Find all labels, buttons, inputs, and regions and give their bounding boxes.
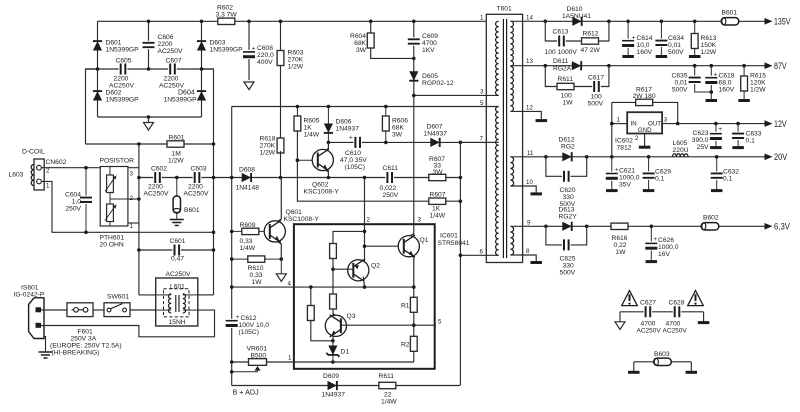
label C605 2200 AC250V (109, 58, 134, 90)
label D611 RG2A (553, 58, 572, 73)
label R602 3,3 7W (216, 5, 238, 19)
wire T601 pin10 to ground (510, 186, 542, 194)
svg-text:C607: C607 (166, 58, 182, 65)
svg-text:0,33: 0,33 (240, 238, 253, 245)
wire pin1 net y=362 (232, 361, 414, 363)
svg-text:Q602: Q602 (312, 182, 329, 189)
resistor R602 (218, 18, 235, 24)
diode D608 (242, 173, 251, 182)
label B601 (722, 10, 738, 17)
wire bridge left column (97, 21, 99, 117)
svg-text:250V: 250V (65, 206, 81, 213)
diode D604 (197, 91, 206, 100)
wire 12V rail (662, 123, 765, 125)
wire bridge bottom rail y=117 (98, 116, 202, 118)
svg-text:IC601: IC601 (440, 233, 458, 240)
svg-text:C610: C610 (345, 150, 361, 157)
svg-text:(HI-BREAKING): (HI-BREAKING) (52, 350, 100, 357)
capacitor C611 (385, 171, 394, 184)
svg-text:RGP02-12: RGP02-12 (422, 80, 454, 87)
wire Q1 base (365, 245, 404, 247)
connector CN602 (34, 159, 44, 190)
svg-text:1: 1 (288, 355, 292, 362)
svg-text:100 1000V: 100 1000V (545, 49, 578, 56)
svg-text:C611: C611 (383, 165, 399, 172)
svg-text:10: 10 (526, 179, 533, 186)
svg-text:R605: R605 (304, 118, 320, 125)
junction pin1 rail left (230, 360, 234, 364)
junction R607 1K right (459, 199, 463, 203)
junction D603 top (200, 20, 204, 24)
svg-text:POSISTOR: POSISTOR (100, 158, 135, 165)
svg-text:220U: 220U (673, 147, 689, 154)
svg-text:D602: D602 (106, 90, 122, 97)
diode D613 (562, 222, 571, 231)
label C629 0,1 (655, 169, 671, 183)
label Q3 (347, 313, 356, 320)
label L603 (9, 172, 24, 179)
svg-text:1: 1 (617, 117, 621, 124)
transistor Q3 (325, 314, 346, 341)
label D607 1N4937 (424, 124, 448, 138)
junction C634 top (660, 20, 664, 24)
wire T601 pin12 to ground (510, 111, 547, 120)
svg-text:0,1: 0,1 (655, 176, 665, 183)
svg-text:+: + (632, 35, 636, 42)
svg-text:0,1: 0,1 (746, 138, 756, 145)
svg-text:C627: C627 (640, 300, 656, 307)
capacitor C604 (79, 168, 93, 233)
bead B601 (721, 18, 739, 25)
label VR601 B500 (247, 346, 268, 360)
label R604 68K 3W (350, 33, 367, 54)
svg-text:F601: F601 (78, 329, 94, 336)
pin label T601 3 (480, 89, 484, 96)
diode D611 (572, 61, 581, 70)
capacitor C606 (142, 21, 156, 69)
label D609 1N4937 (322, 373, 346, 399)
svg-text:1N5399GP: 1N5399GP (106, 47, 140, 54)
svg-text:7812: 7812 (617, 145, 632, 152)
svg-text:1/4W: 1/4W (304, 132, 320, 139)
label C606 2200 AC250V (158, 34, 183, 55)
junction VR601 wiper (230, 370, 234, 374)
wire C620 loop (546, 157, 587, 177)
svg-text:D604: D604 (178, 90, 195, 97)
capacitor C603 (193, 171, 202, 184)
svg-text:160V: 160V (637, 49, 653, 56)
wire T601 pin8 to ground (510, 255, 542, 263)
label + C621 1000,0 35V (615, 167, 640, 189)
T601 core (503, 19, 506, 258)
wire plug neutral under L601 (41, 310, 215, 337)
svg-text:B + ADJ: B + ADJ (233, 388, 260, 397)
resistor R615 (738, 66, 750, 101)
diode D605 (409, 71, 418, 80)
svg-text:1N5399GP: 1N5399GP (106, 97, 140, 104)
wire fuse to switch (93, 309, 104, 311)
svg-text:AC250V: AC250V (159, 83, 184, 90)
svg-text:AC250V: AC250V (158, 48, 183, 55)
svg-text:C606: C606 (158, 34, 174, 41)
capacitor C614 electrolytic (621, 21, 635, 56)
svg-text:1: 1 (480, 15, 484, 22)
wire IC602 pin1 (612, 123, 627, 125)
junction C635 top (693, 64, 697, 68)
junction R1 top (412, 285, 416, 289)
capacitor C620 (562, 170, 571, 183)
resistor R617 (636, 99, 653, 105)
svg-text:C625: C625 (560, 256, 576, 263)
svg-text:R606: R606 (392, 118, 408, 125)
svg-text:1000,0: 1000,0 (658, 244, 679, 251)
wire B+ADJ bottom (232, 385, 460, 387)
svg-text:3,3 7W: 3,3 7W (216, 12, 238, 19)
label T601 (497, 6, 513, 13)
capacitor C613 (557, 35, 566, 48)
junction D607 cathode (459, 141, 463, 145)
svg-text:C621: C621 (619, 168, 635, 175)
svg-text:3: 3 (130, 171, 134, 178)
svg-text:16V: 16V (658, 251, 670, 258)
svg-text:D605: D605 (422, 73, 438, 80)
label C634 0,01 500V (668, 35, 684, 56)
capacitor C633 (731, 124, 745, 148)
svg-text:5: 5 (438, 319, 442, 326)
transistor Q1 (398, 234, 419, 288)
junction C608 top (247, 20, 251, 24)
svg-text:C612: C612 (241, 315, 257, 322)
svg-text:1N4937: 1N4937 (424, 131, 448, 138)
inductor L605 (673, 154, 689, 157)
svg-text:1: 1 (46, 183, 50, 190)
junction Q3 emitter node (331, 339, 335, 343)
wire 6,3V rail (510, 225, 765, 227)
wire pin2 rail (364, 178, 366, 262)
svg-text:8: 8 (526, 248, 530, 255)
label R609 0,33 1/4W (240, 222, 256, 252)
svg-text:500V: 500V (560, 270, 576, 277)
wire bridge top rail y=21.3 (98, 20, 487, 22)
junction R606 bottom (384, 141, 388, 145)
diode D610 (572, 17, 581, 26)
junction PTH pin2 rail A (137, 197, 141, 201)
pin label IC602 2 (635, 135, 639, 142)
svg-text:0,01: 0,01 (668, 42, 681, 49)
switch SW601 (104, 303, 130, 317)
arrow 12V output (765, 119, 788, 129)
svg-text:9: 9 (527, 220, 531, 227)
svg-text:D-COIL: D-COIL (22, 149, 45, 156)
resistor internal mid (330, 294, 337, 309)
junction D608 anode rail (230, 176, 234, 180)
svg-text:2200: 2200 (158, 41, 173, 48)
label D602 1N5399GP (106, 90, 140, 104)
svg-text:20 OHN: 20 OHN (100, 242, 124, 249)
svg-text:6: 6 (480, 249, 484, 256)
label IN OUT GND (631, 120, 662, 134)
svg-text:C623: C623 (693, 130, 709, 137)
junction R605 top (296, 105, 300, 109)
svg-text:12: 12 (526, 105, 533, 112)
svg-text:100: 100 (561, 93, 572, 100)
label C611 0,022 250V (380, 165, 399, 199)
svg-text:7: 7 (480, 136, 484, 143)
label C625 330 500V (560, 256, 576, 277)
label B + ADJ (233, 388, 260, 397)
svg-text:+: + (714, 72, 718, 79)
resistor R601 (167, 141, 184, 147)
svg-text:100V 10,0: 100V 10,0 (239, 322, 270, 329)
label IC601 STR58041 (438, 233, 470, 248)
svg-text:L605: L605 (673, 140, 688, 147)
junction D601 anode (96, 67, 100, 71)
svg-text:68K: 68K (354, 40, 366, 47)
label + C612 100V 10,0 (105C) (236, 314, 270, 336)
junction R607 right (459, 176, 463, 180)
wire C625 loop (546, 226, 587, 245)
wire 20V rail (510, 156, 765, 158)
capacitor C609 (407, 37, 421, 45)
junction rail B y=177.5 (212, 176, 216, 180)
label + C626 1000,0 16V (654, 236, 679, 258)
capacitor C607 (168, 63, 177, 76)
svg-text:D611: D611 (553, 58, 569, 65)
label C601 0,47 (170, 238, 186, 263)
svg-text:R611: R611 (379, 373, 395, 380)
label D603 1N5399GP (210, 40, 244, 54)
svg-text:20V: 20V (774, 152, 788, 162)
svg-text:1/4W: 1/4W (381, 399, 397, 406)
label Q602 KSC1008-Y (304, 182, 340, 196)
capacitor C602 (153, 171, 162, 184)
pin label T601 12 (526, 105, 533, 112)
svg-text:AC250V: AC250V (144, 191, 169, 198)
svg-text:47,0 35V: 47,0 35V (340, 157, 367, 164)
svg-text:(105C): (105C) (239, 329, 259, 336)
svg-text:25V: 25V (697, 144, 709, 151)
label 15NH (169, 319, 186, 326)
svg-text:Q3: Q3 (347, 313, 356, 320)
svg-text:500V: 500V (668, 49, 684, 56)
svg-text:1N5399GP: 1N5399GP (210, 47, 244, 54)
junction C633 top (736, 122, 740, 126)
warning triangle right (688, 291, 704, 306)
svg-text:PTH601: PTH601 (100, 235, 125, 242)
svg-text:1N5399GP: 1N5399GP (164, 97, 198, 104)
svg-text:AC250V: AC250V (637, 328, 662, 335)
svg-text:R602: R602 (217, 5, 233, 12)
wire R617 bypass loop (612, 102, 678, 123)
wire PTH pin2 to rail A (128, 198, 139, 200)
label R616 0,22 1W (612, 235, 628, 256)
svg-text:R612: R612 (583, 31, 599, 38)
junction rail A y=144 (137, 142, 141, 146)
connector IS601 mains plug (29, 298, 44, 339)
resistor R616 (611, 223, 628, 229)
T601 primary winding 1-3 (496, 21, 499, 95)
wire rail x=460.4 feedback (459, 142, 461, 385)
svg-text:400V: 400V (257, 59, 273, 66)
resistor R607 33 3W (429, 174, 446, 180)
wire rail x=85.5 bridge leg (86, 69, 98, 144)
capacitor C621 electrolytic (605, 157, 619, 191)
resistor R606 (382, 107, 389, 143)
pin label T601 10 (526, 179, 533, 186)
resistor R611 22 (379, 382, 396, 388)
svg-text:C601: C601 (170, 238, 186, 245)
resistor internal upper (330, 244, 337, 259)
junction IC602 riser at 20V rail (610, 155, 614, 159)
svg-text:1N4937: 1N4937 (322, 392, 346, 399)
svg-text:B601: B601 (722, 10, 738, 17)
svg-text:D608: D608 (239, 167, 255, 174)
arrow 135V output (765, 17, 792, 27)
label R607 1K 1/4W (430, 192, 446, 220)
junction D606 top (327, 105, 331, 109)
svg-text:0,022: 0,022 (380, 185, 397, 192)
pin label T601 14 (526, 15, 533, 22)
resistor R603 (277, 21, 284, 140)
wire switch to L601 (130, 309, 156, 311)
label Q601 KSC1008-Y (284, 209, 320, 223)
diode D607 (430, 138, 439, 147)
wire rail x=414 snubber to IC601 pin3 (413, 21, 415, 236)
wire bridge right column (201, 21, 203, 117)
svg-text:(105C): (105C) (345, 164, 365, 171)
svg-text:1,0: 1,0 (72, 199, 82, 206)
pin label IC602 1 (617, 117, 621, 124)
label R610 0,33 1W (248, 265, 264, 286)
junction R618 bottom (279, 176, 283, 180)
zener D1 (326, 341, 339, 362)
svg-text:6,3V: 6,3V (774, 222, 791, 232)
svg-text:12V: 12V (774, 119, 787, 129)
svg-text:10,0: 10,0 (637, 42, 650, 49)
svg-text:AC250V: AC250V (663, 328, 688, 335)
junction R615 top (742, 64, 746, 68)
svg-text:68K: 68K (392, 125, 404, 132)
svg-text:2: 2 (367, 217, 371, 224)
fuse F601 (67, 303, 93, 317)
wire T601 pin7 tap (460, 141, 498, 143)
svg-text:2W 180: 2W 180 (633, 93, 656, 100)
label Q1 (420, 237, 429, 244)
svg-text:R618: R618 (260, 136, 276, 143)
svg-text:D610: D610 (567, 6, 583, 13)
svg-text:D603: D603 (210, 40, 226, 47)
capacitor C634 (654, 21, 668, 56)
ground bar at C628 right (698, 312, 710, 323)
diode D606 (324, 107, 333, 143)
junction C635 C618 bottom (710, 90, 714, 94)
svg-text:Q1: Q1 (420, 237, 429, 244)
svg-text:C618: C618 (719, 73, 735, 80)
svg-text:R616: R616 (612, 235, 628, 242)
label R2 (401, 342, 410, 349)
label C623 390,0 25V (692, 126, 723, 151)
wire PTH pin1 to rail A (128, 222, 139, 224)
svg-text:1/4W: 1/4W (430, 213, 446, 220)
pin label CN602 1 (46, 183, 50, 190)
label IC602 7812 (615, 138, 633, 152)
diode D601 (93, 41, 102, 50)
label D606 1N4937 (336, 119, 360, 133)
junction pin2 rail top (363, 176, 367, 180)
svg-text:D1: D1 (341, 349, 350, 356)
svg-text:4700: 4700 (422, 40, 437, 47)
wire internal top tap (333, 231, 365, 315)
label D613 RG2Y (559, 207, 578, 221)
coil L603 (31, 165, 34, 186)
pin label CN602 2 (46, 168, 50, 175)
label C628 4700 AC250V (663, 300, 688, 335)
svg-text:14: 14 (526, 15, 533, 22)
svg-text:1W: 1W (563, 100, 574, 107)
junction bridge bottom center (147, 115, 151, 119)
svg-text:B601: B601 (184, 207, 200, 214)
svg-text:C617: C617 (588, 75, 604, 82)
svg-text:35V: 35V (619, 182, 631, 189)
junction R604 loop to C609 rail (412, 57, 416, 61)
svg-text:500V: 500V (588, 101, 604, 108)
label IS601 IG-0242-P (14, 285, 45, 299)
svg-text:1/2W: 1/2W (288, 64, 304, 71)
junction C604 bottom (84, 231, 88, 235)
wire IC602 input riser (611, 102, 613, 156)
arrow 87V output (765, 61, 788, 71)
label + C614 10,0 160V (632, 35, 653, 57)
svg-text:2: 2 (635, 135, 639, 142)
wire C627 C628 net (620, 311, 704, 313)
svg-text:C628: C628 (669, 300, 685, 307)
label D608 1N4148 (236, 167, 260, 192)
junction R610 left (230, 257, 234, 261)
capacitor C608 electrolytic (242, 21, 256, 89)
wire pin5 stub (414, 324, 436, 326)
label C617 100 500V (588, 75, 605, 108)
svg-text:1W: 1W (252, 279, 263, 286)
svg-text:C635: C635 (672, 73, 688, 80)
junction C629 top (647, 155, 651, 159)
svg-text:(EUROPE: 250V T2.5A): (EUROPE: 250V T2.5A) (50, 343, 122, 350)
label AC250V above L601 (166, 271, 191, 278)
wire rail B x=213.5 (202, 69, 214, 295)
pin label IC601 4 (288, 281, 292, 288)
svg-text:4700: 4700 (641, 321, 656, 328)
wire T601 pin6 (460, 254, 498, 256)
svg-text:R604: R604 (350, 33, 366, 40)
label R603 270K 1/2W (288, 50, 304, 71)
junction Q2 base node (331, 267, 335, 271)
svg-text:3W: 3W (356, 47, 367, 54)
resistor R611 100 1W (557, 83, 574, 89)
junction R617 bypass right (676, 122, 680, 126)
wire plug live to fuse (41, 309, 67, 311)
junction C601 left (137, 248, 141, 252)
svg-text:R615: R615 (750, 73, 766, 80)
svg-text:C614: C614 (637, 35, 653, 42)
label SW601 (107, 294, 129, 301)
svg-text:1/2W: 1/2W (168, 158, 184, 165)
label R617 2W 180 (633, 86, 656, 100)
svg-text:1N4148: 1N4148 (236, 185, 260, 192)
transistor Q2 (348, 259, 369, 287)
line filter L601 box (156, 278, 198, 326)
svg-text:15NH: 15NH (169, 319, 186, 326)
diode D602 (93, 91, 102, 100)
label R611 100 1W (558, 76, 574, 107)
